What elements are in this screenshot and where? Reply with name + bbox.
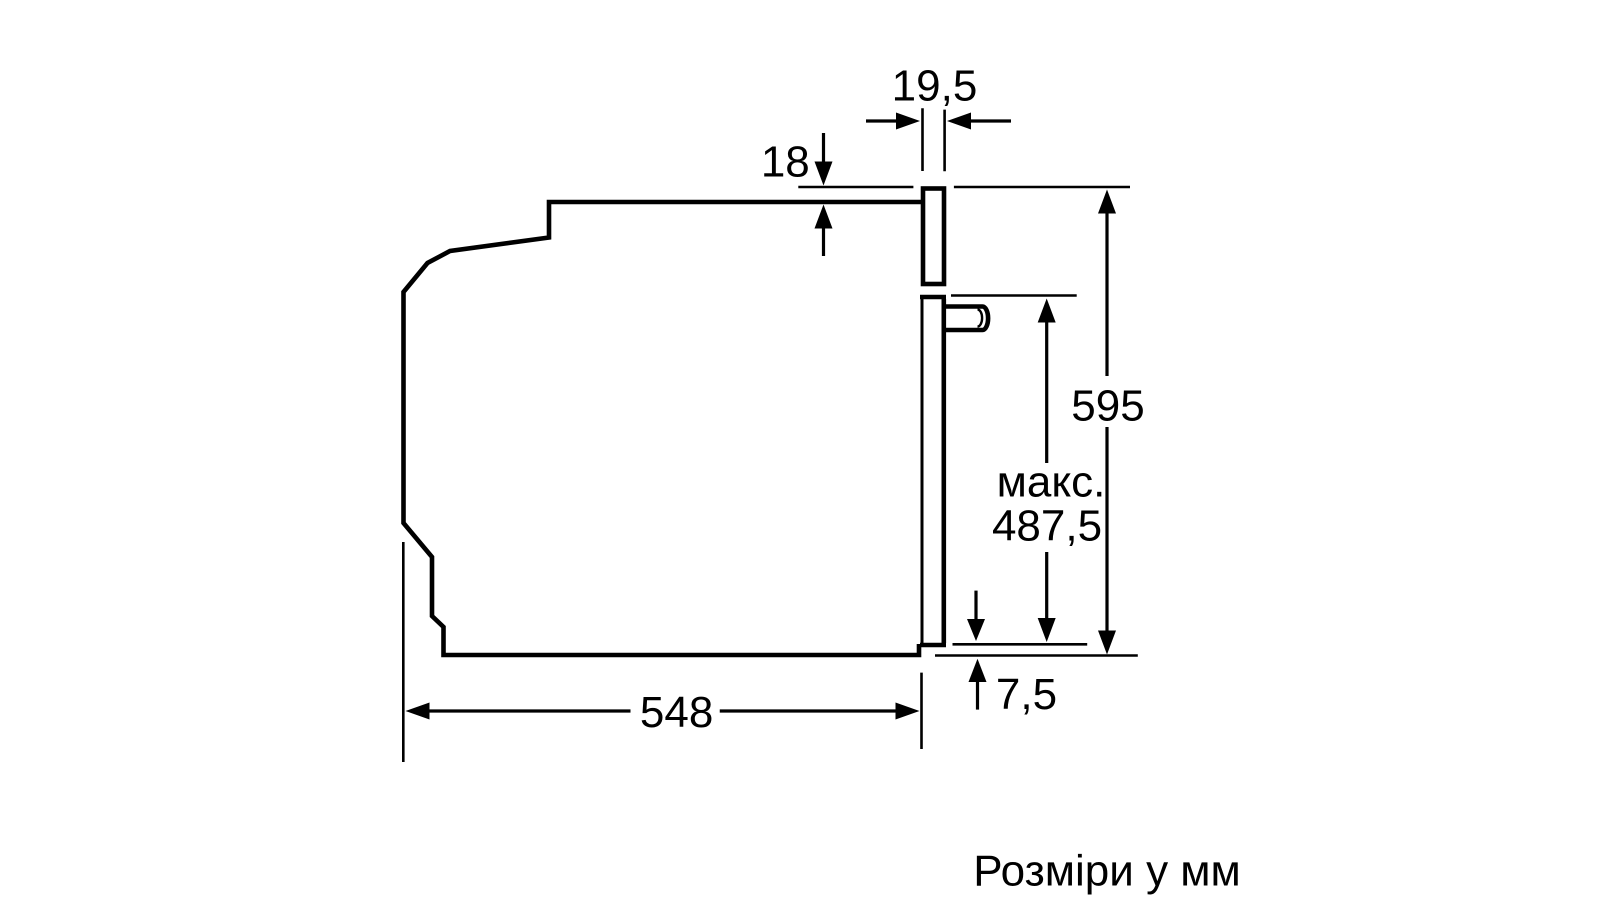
- oven body outline: [404, 202, 923, 655]
- door lower top cap: [920, 295, 946, 300]
- door handle: [946, 307, 988, 331]
- dim 19,5 right arrow: [947, 113, 1011, 130]
- dim 595 line with arrows: [1098, 190, 1116, 655]
- reference line door-top level: [798, 186, 1130, 189]
- svg-text:487,5: 487,5: [992, 502, 1102, 551]
- svg-text:18: 18: [761, 138, 810, 187]
- door bottom cap: [920, 643, 946, 648]
- svg-text:7,5: 7,5: [996, 670, 1057, 719]
- dim 18 up arrow: [815, 205, 833, 257]
- door back edge: [921, 299, 924, 645]
- svg-text:548: 548: [640, 688, 713, 737]
- svg-text:595: 595: [1071, 381, 1144, 430]
- reference line body-bottom level: [935, 654, 1138, 657]
- dim 548 line with arrows: [406, 703, 920, 720]
- extension lines dim 19,5: [923, 108, 945, 171]
- extension lines dim 548: [403, 542, 921, 762]
- svg-text:19,5: 19,5: [892, 62, 978, 111]
- reference line door-step level: [951, 294, 1077, 297]
- svg-text:Розміри у мм: Розміри у мм: [973, 846, 1241, 895]
- dim 19,5 left arrow: [866, 113, 920, 130]
- handle end arc: [978, 310, 983, 327]
- svg-text:макс.: макс.: [997, 458, 1106, 507]
- dim 7,5 down arrow: [967, 591, 985, 641]
- dim 7,5 up arrow: [969, 659, 987, 710]
- reference line door-bottom level: [953, 643, 1088, 646]
- dim 18 down arrow: [815, 133, 833, 186]
- door top panel: [923, 189, 944, 285]
- door front edge: [941, 299, 946, 643]
- dim 487,5 line with arrows: [1038, 299, 1056, 643]
